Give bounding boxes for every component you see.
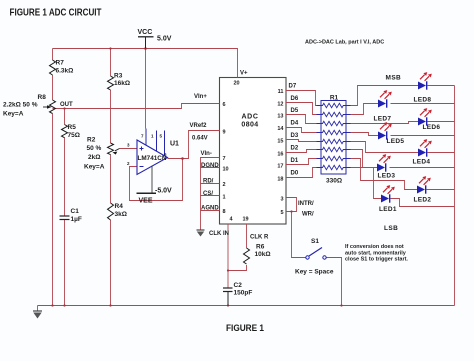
- svg-text:LED1: LED1: [379, 206, 397, 213]
- svg-text:9: 9: [223, 130, 226, 136]
- resistor R5: [62, 125, 68, 138]
- wire R7 to R8: [52, 75, 54, 100]
- switch S1: [306, 248, 326, 260]
- svg-text:D6: D6: [291, 96, 299, 102]
- ADC pin numbers: [223, 81, 285, 223]
- resistor R4: [108, 203, 114, 220]
- wire LED5 cathode: [391, 135, 455, 137]
- svg-text:C1: C1: [71, 208, 80, 215]
- wire S1 to ground rail: [327, 258, 342, 306]
- R1 pack resistor elements: [317, 103, 351, 169]
- svg-text:R2: R2: [87, 137, 96, 144]
- data bus labels D7-D0: [289, 84, 299, 177]
- svg-text:If conversion does not: If conversion does not: [345, 244, 404, 250]
- svg-text:D1: D1: [291, 158, 299, 164]
- svg-text:10: 10: [223, 167, 229, 173]
- svg-text:R8: R8: [38, 94, 47, 101]
- wire R8 bottom to ground rail: [52, 114, 54, 306]
- LED LED5: [378, 122, 404, 145]
- op-amp U1: [127, 129, 168, 175]
- svg-text:Key=A: Key=A: [84, 164, 105, 171]
- power VCC symbol: [138, 37, 154, 49]
- capacitor C1: [60, 216, 70, 220]
- svg-text:16kΩ: 16kΩ: [114, 80, 130, 87]
- wire CS stub: [201, 195, 220, 197]
- wire top VCC rail: [53, 49, 238, 78]
- svg-text:Key=A: Key=A: [3, 111, 24, 118]
- svg-text:17: 17: [277, 164, 283, 170]
- wire R1 row1 to LED8: [351, 86, 419, 106]
- svg-text:D2: D2: [291, 146, 299, 152]
- power VEE symbol: [137, 166, 157, 194]
- svg-text:LED7: LED7: [374, 116, 392, 123]
- svg-text:8: 8: [223, 209, 226, 215]
- svg-text:LED6: LED6: [423, 124, 441, 131]
- ground bottom left: [33, 306, 42, 319]
- svg-text:330Ω: 330Ω: [326, 178, 342, 185]
- svg-text:5: 5: [280, 210, 283, 216]
- svg-text:3: 3: [280, 197, 283, 203]
- wire R1 row4 to LED5: [351, 133, 379, 136]
- LED LED4: [413, 139, 432, 165]
- wire AGND stub: [201, 210, 220, 212]
- svg-text:R5: R5: [68, 124, 77, 131]
- svg-text:LED3: LED3: [378, 173, 396, 180]
- svg-text:U1: U1: [170, 141, 179, 148]
- wire op-amp output to VRef2 pin9: [168, 131, 220, 159]
- svg-text:VIn+: VIn+: [194, 94, 207, 100]
- svg-text:V+: V+: [240, 71, 248, 77]
- wire D0 pin18 to R1: [286, 168, 317, 178]
- wire DGND stub: [201, 167, 220, 169]
- svg-text:D3: D3: [291, 133, 299, 139]
- svg-text:D7: D7: [289, 84, 297, 90]
- wire LED cathode return bus: [454, 86, 456, 306]
- wire R1 row5 to LED4: [351, 142, 419, 153]
- svg-text:14: 14: [277, 126, 284, 132]
- svg-text:6.3kΩ: 6.3kΩ: [56, 68, 74, 75]
- wire RD stub: [201, 183, 220, 185]
- svg-text:-5.0V: -5.0V: [155, 188, 172, 195]
- svg-text:ADC->DAC Lab, part I V.I, ADC: ADC->DAC Lab, part I V.I, ADC: [305, 40, 384, 46]
- LED LED2: [414, 176, 432, 203]
- svg-text:VRef2: VRef2: [190, 123, 208, 129]
- wire LED8 cathode: [428, 85, 455, 87]
- LED LED7: [374, 90, 392, 122]
- svg-text:CLK R: CLK R: [250, 235, 269, 241]
- wire node OUT to pin6 VIn+: [53, 104, 220, 109]
- wire VCC to op-amp V+: [145, 49, 147, 129]
- svg-text:5.0V: 5.0V: [157, 36, 172, 43]
- svg-text:19: 19: [243, 217, 249, 223]
- svg-text:LED4: LED4: [413, 159, 431, 166]
- wire LED4 cathode: [428, 152, 455, 154]
- resistor R3: [108, 76, 114, 90]
- resistor pack R1 body: [321, 101, 346, 175]
- resistor R6: [244, 248, 250, 264]
- svg-text:C2: C2: [234, 282, 243, 289]
- svg-text:16: 16: [277, 152, 283, 158]
- svg-text:1: 1: [151, 134, 154, 139]
- wire R2 wiper to op-amp + input: [120, 148, 138, 150]
- wire pin19 CLK R to R6: [246, 224, 248, 248]
- svg-text:R4: R4: [115, 203, 124, 210]
- wire pin4 CLK IN down to C2: [227, 224, 229, 288]
- svg-text:D4: D4: [291, 121, 299, 127]
- wire OUT to R5: [64, 109, 66, 125]
- resistor R7: [50, 60, 56, 75]
- wire R1 row8 to LED1: [351, 168, 382, 199]
- svg-text:15: 15: [277, 139, 283, 145]
- wire D4 pin14 to R1: [286, 128, 317, 133]
- svg-text:6: 6: [223, 102, 226, 108]
- svg-text:50 %: 50 %: [87, 145, 102, 152]
- wire D3 pin15 to R1: [286, 140, 317, 142]
- wire WR node down to switch S1: [292, 212, 306, 258]
- svg-text:2: 2: [127, 161, 130, 166]
- potentiometer R8: [43, 100, 56, 114]
- LED LED1: [379, 185, 397, 213]
- svg-text:7: 7: [223, 156, 226, 162]
- svg-text:7: 7: [141, 134, 144, 139]
- svg-text:RD/: RD/: [203, 179, 214, 185]
- wire rail to R3: [110, 49, 112, 77]
- wire R6 bottom to pin4 column: [228, 265, 247, 271]
- svg-text:11: 11: [278, 89, 284, 95]
- svg-text:1µF: 1µF: [71, 216, 82, 223]
- svg-text:WR/: WR/: [302, 212, 314, 218]
- wire LED7 cathode: [391, 103, 455, 105]
- svg-text:FIGURE 1: FIGURE 1: [226, 323, 264, 333]
- potentiometer R2: [108, 143, 120, 155]
- svg-text:20: 20: [234, 81, 240, 87]
- IC U2 ADC0804 body: [220, 78, 287, 225]
- wire LED1 cathode: [391, 199, 455, 207]
- svg-text:ADC: ADC: [242, 114, 259, 121]
- wire op-amp - input feedback loop: [130, 159, 183, 201]
- svg-text:3kΩ: 3kΩ: [115, 211, 127, 218]
- wire R1 row3 to LED6: [351, 122, 419, 124]
- svg-text:LED8: LED8: [414, 97, 432, 104]
- svg-text:auto start, momentarily: auto start, momentarily: [345, 250, 407, 256]
- svg-text:Key = Space: Key = Space: [295, 269, 334, 276]
- svg-text:2: 2: [223, 182, 226, 188]
- svg-text:12: 12: [277, 102, 283, 108]
- svg-text:D5: D5: [291, 108, 299, 114]
- svg-text:VCC: VCC: [138, 29, 153, 36]
- svg-text:3: 3: [127, 143, 130, 148]
- svg-text:MSB: MSB: [386, 75, 402, 82]
- svg-text:DGND: DGND: [201, 163, 219, 169]
- wire pin3 INTR to pin5 WR tie: [286, 198, 297, 212]
- wire R1 row2 to LED7: [351, 104, 379, 115]
- svg-text:INTR/: INTR/: [298, 201, 314, 207]
- svg-text:10kΩ: 10kΩ: [255, 251, 271, 258]
- svg-text:75Ω: 75Ω: [68, 132, 80, 139]
- svg-text:AGND: AGND: [201, 206, 219, 212]
- svg-text:R3: R3: [114, 73, 123, 80]
- wire R5 to C1: [64, 138, 66, 217]
- svg-text:13: 13: [277, 114, 283, 120]
- svg-text:2.2kΩ 50 %: 2.2kΩ 50 %: [3, 102, 38, 109]
- wire D1 pin17 to R1: [286, 159, 317, 165]
- wire R7/R8 column top: [52, 49, 54, 61]
- svg-text:FIGURE 1 ADC CIRCUIT: FIGURE 1 ADC CIRCUIT: [10, 8, 102, 19]
- wire pin7 VIn- to ground bus: [201, 158, 220, 230]
- wire C1 to ground rail: [64, 220, 66, 306]
- wire LED2 cathode: [427, 189, 455, 191]
- svg-text:CS/: CS/: [203, 191, 213, 197]
- capacitor C2: [223, 288, 233, 306]
- svg-text:VEE: VEE: [139, 198, 153, 205]
- wire D6 pin12 to R1: [286, 103, 317, 115]
- wire R1 row6 to LED3: [351, 150, 378, 168]
- svg-text:R7: R7: [56, 60, 65, 67]
- wire R4 to ground rail: [110, 220, 112, 306]
- wire R3 to R2: [110, 90, 112, 143]
- wire D5 pin13 to R1: [286, 115, 317, 124]
- wire D2 pin16 to R1: [286, 150, 317, 153]
- wire LED6 cathode: [428, 121, 455, 123]
- svg-text:D0: D0: [291, 171, 299, 177]
- wire LED3 cathode: [390, 167, 455, 169]
- svg-text:S1: S1: [311, 238, 319, 245]
- svg-text:18: 18: [277, 177, 283, 183]
- LED LED8: [414, 72, 432, 103]
- svg-text:0.64V: 0.64V: [192, 136, 208, 142]
- svg-text:LSB: LSB: [384, 225, 398, 232]
- svg-text:R1: R1: [330, 95, 339, 102]
- svg-text:R6: R6: [256, 244, 265, 251]
- wire R1 row7 to LED2: [351, 159, 418, 190]
- svg-text:150pF: 150pF: [234, 290, 253, 297]
- svg-text:0804: 0804: [241, 122, 258, 129]
- svg-text:OUT: OUT: [60, 102, 73, 108]
- svg-text:VIn-: VIn-: [201, 151, 212, 157]
- ground near chip (AGND/DGND): [197, 230, 205, 237]
- note: start hint text: [345, 244, 408, 263]
- svg-text:close S1 to trigger start.: close S1 to trigger start.: [345, 257, 408, 263]
- svg-text:2kΩ: 2kΩ: [88, 154, 100, 161]
- svg-text:1: 1: [223, 195, 226, 201]
- svg-text:CLK IN: CLK IN: [209, 231, 229, 237]
- svg-text:5: 5: [160, 134, 163, 139]
- LED LED3: [377, 154, 395, 179]
- wire D7 pin11 to R1: [286, 91, 317, 106]
- wire R2 to R4: [110, 155, 112, 204]
- wire bottom ground rail: [38, 305, 455, 307]
- svg-text:LED5: LED5: [387, 138, 405, 145]
- svg-text:LED2: LED2: [414, 197, 432, 204]
- LED LED6: [418, 108, 440, 131]
- svg-text:LM741CN: LM741CN: [138, 155, 167, 162]
